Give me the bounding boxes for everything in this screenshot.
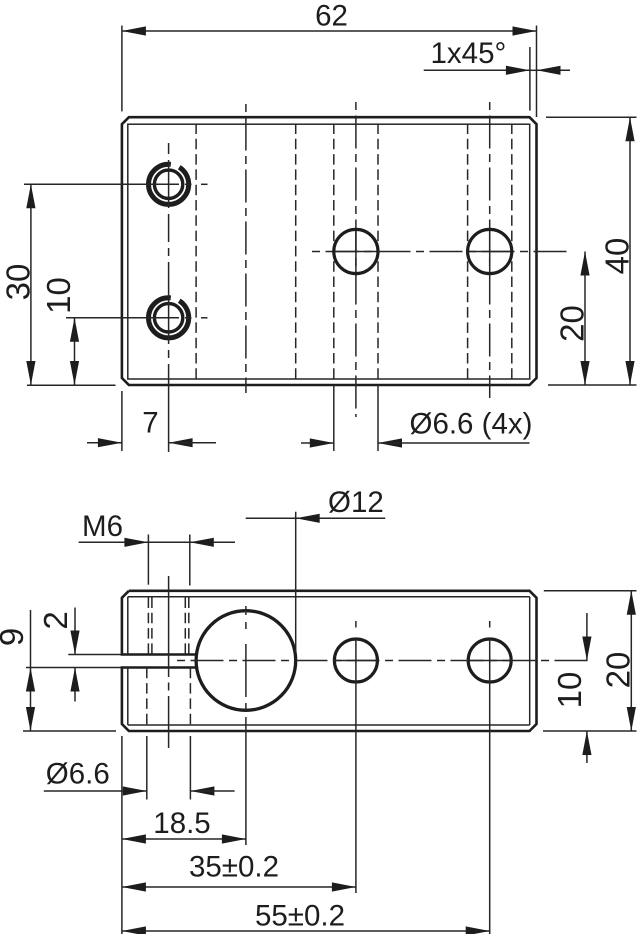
center line bore x=245.9 vertical xyxy=(245,606,247,615)
svg-text:10: 10 xyxy=(551,672,588,709)
extension lines Ø6.6 4x dim xyxy=(333,385,335,451)
dimension 9 xyxy=(30,610,32,731)
svg-text:10: 10 xyxy=(40,277,77,314)
hole Ø6.6 right (bottom view) xyxy=(468,639,511,682)
center line M6 holes x=168.6 xyxy=(168,143,170,154)
extension lines for 7 dim xyxy=(121,391,123,451)
horizontal center line bottom view xyxy=(177,660,593,662)
Ø6.6 clearance hidden lines below slit xyxy=(146,668,148,725)
extension bottom edge left xyxy=(27,384,116,386)
center line mid hole bottom view xyxy=(355,621,357,628)
svg-text:1x45°: 1x45° xyxy=(431,37,507,70)
horizontal center line y=251.5 top view xyxy=(312,251,569,253)
svg-text:Ø12: Ø12 xyxy=(328,486,384,519)
dimension 40 right xyxy=(546,116,637,118)
svg-text:62: 62 xyxy=(315,0,348,33)
M6 thread hole bottom (top view) xyxy=(149,298,189,338)
hole Ø6.6 mid (top view) xyxy=(334,229,378,273)
dimension Ø6.6 (4x) xyxy=(301,442,334,444)
dimension Ø12 leader xyxy=(295,512,297,652)
svg-text:20: 20 xyxy=(554,305,591,342)
svg-text:18.5: 18.5 xyxy=(153,807,210,840)
extension line left (62 dim) xyxy=(121,26,123,112)
dimension 7 xyxy=(87,442,122,444)
dimension 35±0.2 xyxy=(122,886,356,888)
center line bottom M6 hole horizontal xyxy=(66,317,179,319)
extension lines slit (2 dim) xyxy=(68,654,121,656)
extension line right (62 dim) xyxy=(536,26,538,118)
dimension 20 right top view xyxy=(584,252,586,386)
top view outer outline (chamfered plate 62x40) xyxy=(122,117,537,385)
dimension 2 xyxy=(74,608,76,655)
dimension 62 top xyxy=(122,30,537,32)
svg-text:7: 7 xyxy=(142,407,158,440)
svg-text:40: 40 xyxy=(599,238,636,275)
hole Ø6.6 mid (bottom view) xyxy=(334,639,377,682)
hidden lines bore Ø12 in top view xyxy=(195,124,197,380)
center line M6 x=168.6 bottom view xyxy=(168,576,170,677)
svg-text:55±0.2: 55±0.2 xyxy=(255,900,345,933)
extension line chamfer (1x45) xyxy=(529,47,531,111)
svg-text:35±0.2: 35±0.2 xyxy=(189,851,279,884)
dimension 10 left xyxy=(74,318,76,385)
top view inner chamfer line xyxy=(128,124,530,379)
svg-text:20: 20 xyxy=(600,652,637,689)
svg-text:Ø6.6: Ø6.6 xyxy=(46,758,110,791)
dimension 55±0.2 xyxy=(122,930,490,932)
dimension 20 bottom view xyxy=(544,590,637,592)
svg-text:9: 9 xyxy=(0,628,30,646)
hole Ø6.6 right (top view) xyxy=(468,229,512,273)
hidden lines right hole in top view xyxy=(467,124,469,380)
dimension 10 bottom view xyxy=(586,613,588,661)
hidden lines mid hole in top view xyxy=(333,124,335,380)
bottom view outer outline with slit xyxy=(122,591,537,731)
svg-text:30: 30 xyxy=(0,264,37,301)
center line bore axis x=245.9 top view xyxy=(245,104,247,393)
svg-text:2: 2 xyxy=(37,611,74,629)
svg-text:M6: M6 xyxy=(82,510,123,543)
extension line x=121.9 bottom dims xyxy=(121,736,123,934)
M6 thread hole top (top view) xyxy=(149,164,189,204)
svg-text:Ø6.6 (4x): Ø6.6 (4x) xyxy=(410,408,533,441)
center line right hole x=489.7 top view xyxy=(489,102,491,398)
center line top M6 hole horizontal xyxy=(24,183,179,185)
dimension 1x45deg xyxy=(424,69,530,71)
center line mid hole x=355.9 top view xyxy=(355,102,357,417)
dimension 18.5 xyxy=(122,838,246,840)
dimension Ø6.6 bottom xyxy=(146,736,148,800)
bore Ø12 (drawn dia 15) xyxy=(196,611,296,711)
center line right hole bottom view xyxy=(489,621,491,628)
dimension 30 left xyxy=(30,184,32,385)
bottom view inner chamfer lines xyxy=(128,596,530,598)
extension bottom edge left (9 dim) xyxy=(23,730,116,732)
dimension M6 xyxy=(147,535,149,585)
M6 thread hidden lines (bottom view) xyxy=(147,598,149,655)
